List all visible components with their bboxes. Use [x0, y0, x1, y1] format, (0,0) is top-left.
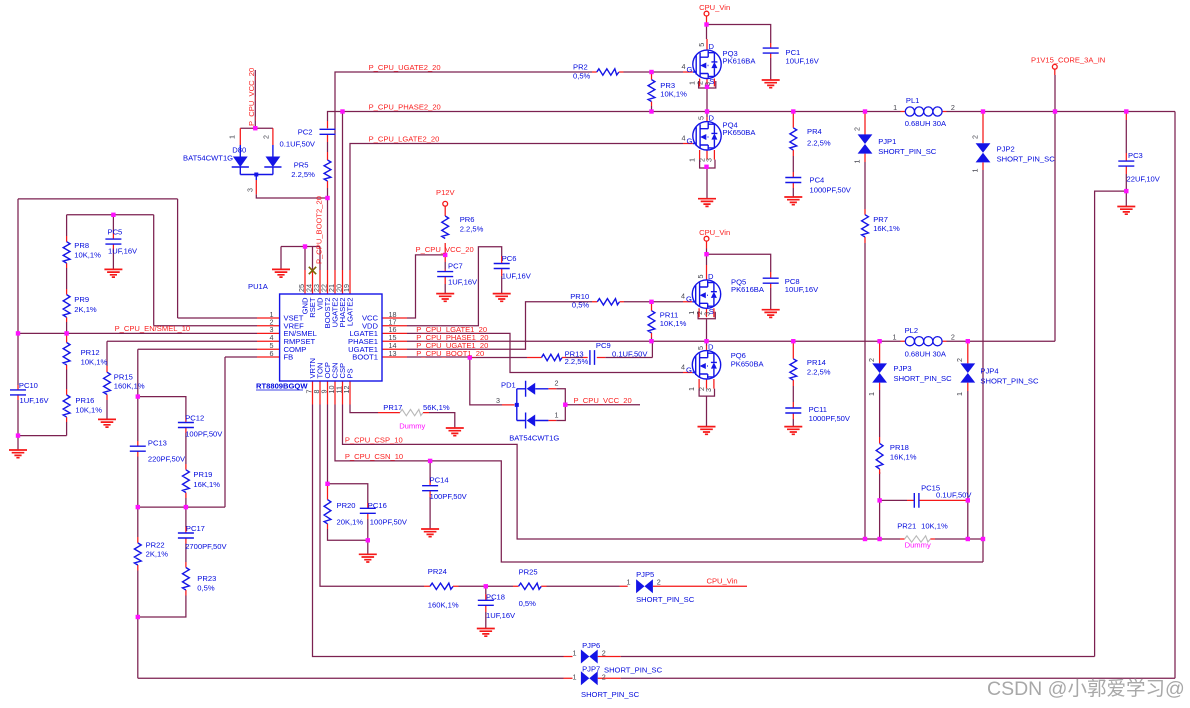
- svg-text:1: 1: [687, 387, 696, 391]
- svg-text:2: 2: [262, 135, 271, 139]
- svg-text:PC4: PC4: [810, 176, 825, 185]
- svg-text:1: 1: [573, 648, 577, 657]
- svg-text:PR19: PR19: [193, 470, 212, 479]
- svg-text:10UF,16V: 10UF,16V: [785, 285, 819, 294]
- svg-text:PR9: PR9: [74, 295, 89, 304]
- svg-text:1UF,16V: 1UF,16V: [448, 278, 478, 287]
- svg-text:56K,1%: 56K,1%: [423, 403, 450, 412]
- svg-text:S: S: [709, 77, 714, 86]
- svg-text:D: D: [709, 42, 715, 51]
- svg-text:16K,1%: 16K,1%: [890, 453, 917, 462]
- svg-text:2: 2: [955, 358, 964, 362]
- svg-text:PS: PS: [346, 368, 355, 378]
- svg-text:PR25: PR25: [519, 568, 538, 577]
- svg-text:0.1UF,50V: 0.1UF,50V: [612, 350, 648, 359]
- svg-text:16K,1%: 16K,1%: [193, 480, 220, 489]
- svg-text:P_CPU_BOOT2_20: P_CPU_BOOT2_20: [315, 196, 324, 264]
- svg-text:P_CPU_CSP_10: P_CPU_CSP_10: [345, 435, 403, 444]
- svg-text:2: 2: [602, 648, 606, 657]
- svg-text:PR14: PR14: [807, 358, 826, 367]
- svg-text:PR15: PR15: [114, 373, 133, 382]
- svg-text:PR18: PR18: [890, 443, 909, 452]
- svg-text:2: 2: [657, 578, 661, 587]
- svg-text:4: 4: [682, 133, 686, 142]
- svg-text:2K,1%: 2K,1%: [74, 305, 97, 314]
- svg-text:10K,1%: 10K,1%: [921, 522, 948, 531]
- svg-text:2: 2: [602, 673, 606, 682]
- svg-text:P_CPU_PHASE2_20: P_CPU_PHASE2_20: [369, 103, 441, 112]
- svg-text:1: 1: [555, 411, 559, 420]
- svg-text:Dummy: Dummy: [905, 541, 931, 550]
- svg-text:5: 5: [697, 116, 706, 120]
- svg-text:PJP2: PJP2: [997, 145, 1015, 154]
- svg-text:S: S: [709, 307, 714, 316]
- svg-text:1UF,16V: 1UF,16V: [20, 396, 50, 405]
- svg-text:G: G: [687, 136, 693, 145]
- svg-text:10K,1%: 10K,1%: [660, 319, 687, 328]
- svg-text:100PF,50V: 100PF,50V: [370, 518, 408, 527]
- svg-text:P_CPU_EN/SMEL_10: P_CPU_EN/SMEL_10: [115, 324, 191, 333]
- svg-text:0.68UH 30A: 0.68UH 30A: [905, 119, 947, 128]
- svg-text:PL2: PL2: [905, 326, 919, 335]
- svg-text:D: D: [708, 343, 714, 352]
- svg-text:PJP6: PJP6: [582, 641, 600, 650]
- svg-text:1: 1: [228, 135, 237, 139]
- svg-text:PL1: PL1: [906, 96, 920, 105]
- svg-text:2.2,5%: 2.2,5%: [460, 225, 484, 234]
- svg-text:5: 5: [696, 275, 705, 279]
- svg-text:PC6: PC6: [502, 254, 517, 263]
- svg-text:PJP1: PJP1: [878, 137, 896, 146]
- svg-text:PC2: PC2: [298, 128, 313, 137]
- svg-text:1: 1: [688, 158, 697, 162]
- svg-text:PC9: PC9: [596, 341, 611, 350]
- svg-text:PR8: PR8: [74, 241, 89, 250]
- svg-text:3: 3: [246, 188, 255, 192]
- svg-text:160K,1%: 160K,1%: [428, 601, 459, 610]
- svg-text:D80: D80: [232, 146, 246, 155]
- svg-text:10K,1%: 10K,1%: [75, 406, 102, 415]
- svg-text:G: G: [686, 295, 692, 304]
- svg-text:PD1: PD1: [501, 381, 516, 390]
- svg-text:PU1A: PU1A: [248, 282, 269, 291]
- svg-text:SHORT_PIN_SC: SHORT_PIN_SC: [894, 374, 953, 383]
- svg-text:5: 5: [697, 43, 706, 47]
- svg-text:SHORT_PIN_SC: SHORT_PIN_SC: [581, 690, 640, 699]
- svg-text:3: 3: [704, 388, 713, 392]
- svg-text:0,5%: 0,5%: [573, 72, 591, 81]
- svg-text:PC16: PC16: [368, 501, 387, 510]
- svg-text:SHORT_PIN_SC: SHORT_PIN_SC: [604, 666, 663, 675]
- svg-text:PR16: PR16: [75, 396, 94, 405]
- svg-text:4: 4: [682, 62, 686, 71]
- svg-text:0.1UF,50V: 0.1UF,50V: [280, 140, 316, 149]
- svg-text:P_CPU_VCC_20: P_CPU_VCC_20: [416, 245, 474, 254]
- svg-text:10K,1%: 10K,1%: [660, 90, 687, 99]
- svg-text:SHORT_PIN_SC: SHORT_PIN_SC: [997, 154, 1056, 163]
- svg-text:6: 6: [270, 349, 274, 358]
- svg-text:16K,1%: 16K,1%: [873, 224, 900, 233]
- svg-text:PR20: PR20: [337, 501, 356, 510]
- svg-text:4: 4: [681, 362, 685, 371]
- svg-text:2: 2: [853, 127, 862, 131]
- svg-text:SHORT_PIN_SC: SHORT_PIN_SC: [878, 147, 937, 156]
- svg-text:CPU_Vin: CPU_Vin: [699, 228, 730, 237]
- svg-text:4: 4: [681, 292, 685, 301]
- svg-text:P_CPU_CSN_10: P_CPU_CSN_10: [345, 452, 403, 461]
- svg-text:P_CPU_VCC_20: P_CPU_VCC_20: [247, 68, 256, 126]
- svg-text:CPU_Vin: CPU_Vin: [707, 577, 738, 586]
- svg-text:CSDN @小郭爱学习@: CSDN @小郭爱学习@: [987, 678, 1185, 700]
- svg-text:P1V15_CORE_3A_IN: P1V15_CORE_3A_IN: [1031, 56, 1105, 65]
- svg-text:P_CPU_BOOT1_20: P_CPU_BOOT1_20: [416, 349, 484, 358]
- svg-text:2.2,5%: 2.2,5%: [807, 139, 831, 148]
- svg-text:100PF,50V: 100PF,50V: [185, 430, 223, 439]
- svg-text:1UF,16V: 1UF,16V: [108, 247, 138, 256]
- svg-text:1: 1: [971, 169, 980, 173]
- svg-text:10K,1%: 10K,1%: [74, 251, 101, 260]
- svg-text:PR12: PR12: [81, 348, 100, 357]
- svg-text:PK616BA: PK616BA: [723, 57, 757, 66]
- svg-text:1: 1: [893, 333, 897, 342]
- svg-text:Dummy: Dummy: [399, 422, 425, 431]
- svg-text:PC10: PC10: [19, 381, 38, 390]
- svg-text:PC14: PC14: [430, 476, 449, 485]
- svg-text:PC13: PC13: [148, 439, 167, 448]
- svg-text:PR23: PR23: [197, 574, 216, 583]
- svg-text:PK616BA: PK616BA: [731, 285, 765, 294]
- svg-text:100PF,50V: 100PF,50V: [430, 492, 468, 501]
- svg-text:1: 1: [627, 578, 631, 587]
- svg-text:160K,1%: 160K,1%: [114, 382, 145, 391]
- svg-text:PC3: PC3: [1128, 151, 1143, 160]
- svg-text:D: D: [708, 272, 714, 281]
- svg-text:20K,1%: 20K,1%: [337, 518, 364, 527]
- svg-text:1000PF,50V: 1000PF,50V: [810, 186, 852, 195]
- svg-text:19: 19: [342, 284, 351, 292]
- svg-text:10UF,16V: 10UF,16V: [786, 57, 820, 66]
- svg-text:BAT54CWT1G: BAT54CWT1G: [183, 154, 233, 163]
- svg-text:2K,1%: 2K,1%: [146, 550, 169, 559]
- svg-text:0,5%: 0,5%: [572, 301, 590, 310]
- svg-text:3: 3: [705, 158, 714, 162]
- svg-text:PC18: PC18: [486, 593, 505, 602]
- svg-text:0.1UF,50V: 0.1UF,50V: [936, 491, 972, 500]
- svg-text:0,5%: 0,5%: [197, 584, 215, 593]
- svg-text:PR21: PR21: [897, 522, 916, 531]
- svg-text:PJP3: PJP3: [894, 364, 912, 373]
- svg-text:2: 2: [951, 103, 955, 112]
- svg-text:1: 1: [893, 103, 897, 112]
- svg-text:2: 2: [867, 358, 876, 362]
- svg-text:P_CPU_UGATE2_20: P_CPU_UGATE2_20: [369, 63, 441, 72]
- svg-text:13: 13: [389, 349, 397, 358]
- svg-text:10K,1%: 10K,1%: [81, 358, 108, 367]
- svg-text:5: 5: [696, 346, 705, 350]
- svg-text:G: G: [687, 65, 693, 74]
- svg-text:1: 1: [573, 673, 577, 682]
- svg-text:SHORT_PIN_SC: SHORT_PIN_SC: [980, 376, 1039, 385]
- svg-text:0,5%: 0,5%: [519, 599, 537, 608]
- svg-text:1UF,16V: 1UF,16V: [502, 272, 532, 281]
- svg-text:PR17: PR17: [383, 403, 402, 412]
- svg-text:P_CPU_VCC_20: P_CPU_VCC_20: [574, 396, 632, 405]
- svg-text:SHORT_PIN_SC: SHORT_PIN_SC: [636, 595, 695, 604]
- svg-text:PR22: PR22: [146, 541, 165, 550]
- svg-text:PR2: PR2: [573, 63, 588, 72]
- svg-text:2.2,5%: 2.2,5%: [565, 357, 589, 366]
- svg-text:PR24: PR24: [428, 567, 447, 576]
- svg-text:1UF,16V: 1UF,16V: [486, 611, 516, 620]
- svg-text:BOOT1: BOOT1: [352, 353, 378, 362]
- svg-text:12: 12: [342, 386, 351, 394]
- svg-text:G: G: [686, 365, 692, 374]
- svg-text:2: 2: [951, 333, 955, 342]
- svg-text:P12V: P12V: [436, 188, 456, 197]
- svg-text:PC5: PC5: [108, 228, 123, 237]
- svg-text:PJP5: PJP5: [636, 570, 654, 579]
- svg-text:1: 1: [955, 392, 964, 396]
- svg-text:PC17: PC17: [186, 524, 205, 533]
- svg-text:2700PF,50V: 2700PF,50V: [185, 542, 227, 551]
- svg-text:P_CPU_LGATE2_20: P_CPU_LGATE2_20: [369, 135, 440, 144]
- svg-text:PC11: PC11: [809, 405, 827, 414]
- svg-text:PJP7: PJP7: [582, 665, 600, 674]
- svg-text:LGATE2: LGATE2: [346, 298, 355, 327]
- svg-text:PJP4: PJP4: [980, 367, 998, 376]
- svg-text:2.2,5%: 2.2,5%: [807, 368, 831, 377]
- svg-text:FB: FB: [284, 353, 294, 362]
- svg-text:PC12: PC12: [185, 414, 204, 423]
- svg-text:CPU_Vin: CPU_Vin: [699, 3, 730, 12]
- svg-text:2.2,5%: 2.2,5%: [291, 170, 315, 179]
- svg-text:D: D: [709, 114, 715, 123]
- svg-text:3: 3: [496, 396, 500, 405]
- svg-text:22UF,10V: 22UF,10V: [1127, 175, 1161, 184]
- svg-text:RT8809BGQW: RT8809BGQW: [256, 382, 308, 391]
- svg-text:PK650BA: PK650BA: [731, 360, 765, 369]
- svg-text:1: 1: [853, 160, 862, 164]
- svg-text:0.68UH 30A: 0.68UH 30A: [905, 350, 947, 359]
- svg-text:2: 2: [971, 135, 980, 139]
- svg-text:PR4: PR4: [807, 127, 822, 136]
- svg-text:220PF,50V: 220PF,50V: [148, 455, 186, 464]
- svg-text:PC7: PC7: [448, 262, 463, 271]
- svg-text:PR7: PR7: [873, 215, 888, 224]
- svg-text:PR5: PR5: [294, 161, 309, 170]
- svg-text:1000PF,50V: 1000PF,50V: [809, 414, 851, 423]
- svg-text:PK650BA: PK650BA: [723, 128, 757, 137]
- svg-text:PR6: PR6: [460, 215, 475, 224]
- svg-text:1: 1: [867, 392, 876, 396]
- svg-text:BAT54CWT1G: BAT54CWT1G: [509, 434, 559, 443]
- svg-text:2: 2: [555, 379, 559, 388]
